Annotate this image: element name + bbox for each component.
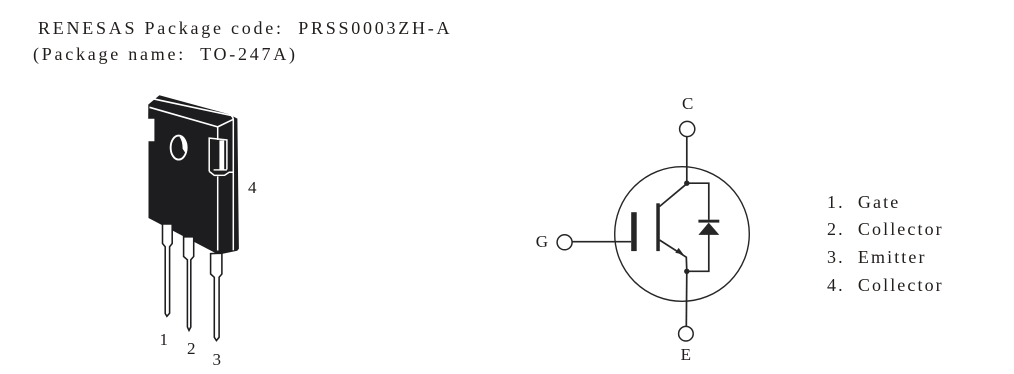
package body (TO-247A black silhouette, perspective view)	[148, 95, 239, 254]
terminal C circle	[680, 121, 695, 136]
pin 1 lead	[163, 224, 173, 316]
wire: diode to bottom junction	[687, 234, 709, 271]
front-right edge line below slot	[217, 176, 219, 250]
wire: G terminal to gate bar	[572, 241, 631, 243]
package front-top edge highlight (lower white line)	[150, 107, 234, 127]
side slot outline	[209, 138, 233, 175]
legend line 1	[827, 193, 900, 211]
side-face edge line (right vertical white line)	[232, 120, 234, 251]
IGBT gate bar	[631, 212, 637, 251]
terminal G circle	[557, 235, 572, 250]
title line 2: package name	[33, 45, 298, 63]
front-right corner edge above slot	[217, 127, 219, 140]
node: bottom junction dot	[684, 269, 689, 274]
side slot bottom cap line	[214, 169, 227, 171]
IGBT emitter arrowhead	[675, 248, 683, 255]
title line 1: package code	[38, 19, 452, 37]
terminal E circle	[679, 326, 694, 341]
node: top junction dot	[684, 181, 689, 186]
legend line 4	[827, 276, 944, 294]
wire: top junction to diode branch	[687, 183, 709, 220]
IGBT symbol outer circle	[615, 167, 750, 302]
label 1 (pin 1)	[160, 331, 169, 348]
pin 3 lead	[211, 253, 222, 340]
IGBT body bar	[656, 203, 660, 251]
label E (emitter terminal)	[681, 346, 691, 363]
pin 2 lead	[184, 237, 194, 331]
IGBT collector stroke	[660, 184, 687, 207]
mounting hole	[171, 136, 187, 160]
wire: bottom junction to E terminal	[685, 271, 688, 326]
label 2 (pin 2)	[187, 340, 196, 357]
label C (collector terminal)	[682, 95, 693, 112]
side slot inner highlight bar	[219, 140, 224, 169]
label 4 (package)	[248, 179, 257, 196]
label G (gate terminal)	[536, 233, 548, 250]
mounting hole inner highlight (crescent)	[179, 137, 186, 153]
wire: C terminal to top junction	[686, 137, 688, 184]
legend line 3	[827, 248, 927, 266]
diode D1 cathode bar	[698, 220, 719, 223]
legend line 2	[827, 220, 944, 238]
package top bevel highlight (upper white line)	[153, 99, 234, 120]
diode D1 triangle (anode, pointing up)	[698, 223, 719, 235]
label 3 (pin 3)	[213, 351, 222, 368]
IGBT emitter stroke	[660, 240, 687, 271]
